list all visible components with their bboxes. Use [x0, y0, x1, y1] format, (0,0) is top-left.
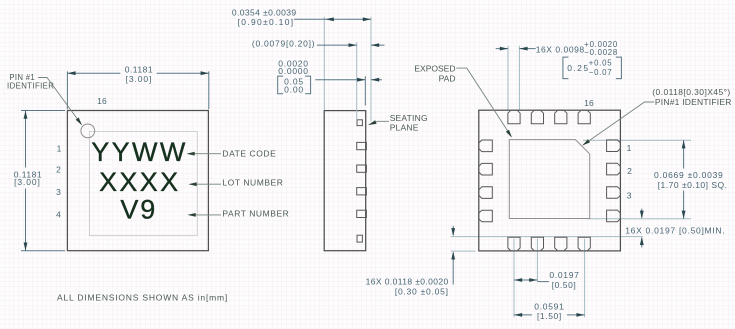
side pad 1 — [357, 142, 367, 149]
svg-text:[0.50]: [0.50] — [552, 280, 577, 290]
dimension 0.0079 lead thickness — [317, 44, 385, 46]
svg-text:1: 1 — [57, 144, 62, 154]
inner marking area square — [90, 132, 198, 236]
svg-text:EXPOSED: EXPOSED — [414, 63, 455, 73]
left pad d — [479, 210, 493, 222]
svg-text:[1.70 ±0.10] SQ.: [1.70 ±0.10] SQ. — [658, 180, 728, 190]
svg-text:2: 2 — [56, 164, 61, 174]
dimension 0.0591 span — [514, 314, 585, 316]
svg-text:0.0354 ±0.0039: 0.0354 ±0.0039 — [232, 8, 297, 18]
extension lines pad width top — [508, 46, 519, 111]
svg-text:+0.05: +0.05 — [589, 58, 612, 67]
extension line body right face — [364, 76, 366, 105]
svg-text:0.00: 0.00 — [284, 84, 304, 94]
extension line seating plane — [370, 17, 372, 121]
svg-text:PAD: PAD — [439, 73, 456, 83]
extension line pad face — [356, 42, 358, 119]
svg-text:LOT NUMBER: LOT NUMBER — [222, 178, 283, 188]
left pad b — [479, 163, 493, 175]
bottom center extension pad 2 — [536, 239, 538, 282]
svg-text:[1.50]: [1.50] — [537, 311, 562, 321]
top width dimension 0.1181 [3.00] — [67, 71, 208, 109]
svg-text:PLANE: PLANE — [390, 123, 419, 133]
dimension 16X 0.0118 terminal length — [452, 226, 454, 285]
svg-text:16: 16 — [97, 96, 107, 106]
dimension 0.0020 standoff — [315, 79, 382, 81]
svg-text:0.25: 0.25 — [567, 63, 589, 73]
svg-text:16: 16 — [584, 98, 594, 108]
package body outline bottom view — [479, 110, 621, 251]
left pad a — [479, 140, 493, 152]
svg-text:[0.90±0.10]: [0.90±0.10] — [238, 17, 295, 27]
side pad 4 — [357, 210, 367, 217]
svg-text:[3.00]: [3.00] — [126, 74, 153, 84]
part number leader — [189, 214, 221, 216]
side pad 2 — [357, 165, 367, 172]
svg-text:−0.07: −0.07 — [589, 68, 612, 77]
svg-text:3: 3 — [56, 187, 61, 197]
bottom pad 9 — [508, 237, 520, 251]
svg-text:4: 4 — [56, 209, 61, 219]
right pad 2 — [607, 163, 621, 175]
seating plane leader — [369, 121, 389, 124]
bottom pad 12 — [578, 237, 590, 251]
svg-text:IDENTIFIER: IDENTIFIER — [7, 81, 54, 90]
svg-text:SEATING: SEATING — [390, 113, 428, 123]
svg-text:PIN#1 IDENTIFIER: PIN#1 IDENTIFIER — [655, 97, 732, 107]
bottom pad 11 — [555, 237, 567, 251]
svg-text:(0.0118[0.30]X45°): (0.0118[0.30]X45°) — [652, 87, 730, 97]
svg-text:[3.00]: [3.00] — [14, 177, 41, 187]
svg-text:ALL DIMENSIONS SHOWN AS in[mm]: ALL DIMENSIONS SHOWN AS in[mm] — [57, 293, 228, 303]
left pad c — [479, 187, 493, 199]
svg-text:PART NUMBER: PART NUMBER — [222, 209, 289, 219]
exposed pad leader — [456, 68, 511, 136]
dimension 0.0354 total height line — [294, 18, 371, 20]
dimension 0.0197 pitch — [514, 280, 549, 282]
svg-text:2: 2 — [627, 166, 632, 176]
svg-text:16X 0.0197 [0.50]MIN.: 16X 0.0197 [0.50]MIN. — [625, 225, 725, 235]
bottom pad 10 — [531, 237, 543, 251]
extension line exposed pad top — [583, 139, 691, 141]
pin #1 identifier circle — [81, 124, 95, 138]
dimension 16X 0.0197 MIN — [641, 209, 643, 248]
bottom center extension pad 1 — [513, 239, 515, 318]
top pad 15 — [555, 110, 567, 124]
top pad 14 — [531, 110, 543, 124]
exposed pad with pin 1 chamfer — [509, 140, 589, 219]
extension line body left face — [323, 17, 325, 110]
svg-text:16X 0.0098: 16X 0.0098 — [536, 45, 585, 55]
svg-text:YYWW: YYWW — [91, 137, 188, 167]
side body outline — [324, 111, 366, 251]
metric tolerance brackets — [563, 57, 622, 79]
pin 1 identifier leader — [38, 78, 82, 125]
svg-text:(0.0079[0.20]): (0.0079[0.20]) — [252, 39, 315, 49]
top pad 13 — [508, 110, 520, 124]
svg-text:0.0669 ±0.0039: 0.0669 ±0.0039 — [654, 170, 724, 180]
svg-text:16X 0.0118 ±0.0020: 16X 0.0118 ±0.0020 — [366, 276, 449, 286]
svg-text:V9: V9 — [120, 195, 157, 225]
extension line exposed pad bottom — [587, 218, 691, 220]
side pad corner bottom — [357, 235, 362, 242]
svg-text:0.0197: 0.0197 — [549, 270, 579, 280]
standoff tolerance brackets — [278, 76, 311, 94]
package body outline — [67, 111, 208, 251]
bottom center extension pad 4 — [584, 239, 586, 318]
svg-text:[0.30 ±0.05]: [0.30 ±0.05] — [395, 287, 449, 297]
left height dimension 0.1181 [3.00] — [21, 111, 65, 251]
date code leader — [188, 153, 221, 155]
top pad 16 — [578, 110, 590, 124]
dimension 0.0669 exposed pad square — [683, 140, 685, 219]
svg-text:3: 3 — [627, 191, 632, 201]
dimension 16X 0.0098 terminal width — [496, 48, 536, 50]
svg-text:−0.0028: −0.0028 — [584, 48, 618, 57]
svg-text:1: 1 — [627, 143, 632, 153]
extension line package bottom edge left — [451, 250, 476, 252]
pin#1 identifier leader — [583, 102, 654, 145]
svg-text:0.0591: 0.0591 — [534, 301, 564, 311]
lot number leader — [190, 183, 221, 185]
svg-text:DATE CODE: DATE CODE — [222, 148, 276, 158]
right pad 3 — [607, 187, 621, 199]
svg-text:XXXX: XXXX — [99, 167, 180, 197]
svg-text:0.0000: 0.0000 — [278, 66, 309, 76]
extension line pad inner ends — [451, 236, 643, 238]
side pad corner top — [357, 120, 362, 126]
side pad 3 — [357, 188, 367, 195]
right pad 1 — [607, 140, 621, 152]
right pad 4 — [607, 210, 621, 222]
